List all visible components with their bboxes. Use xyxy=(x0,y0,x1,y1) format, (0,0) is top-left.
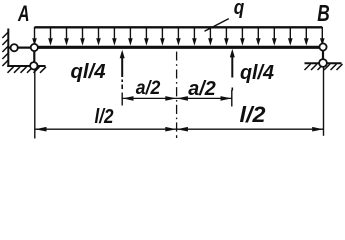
load arrow 17 xyxy=(288,27,293,46)
load arrow 7 xyxy=(128,27,133,46)
load arrow 14 xyxy=(240,27,245,46)
support B ground hatching xyxy=(305,64,343,70)
point load ql/4 left up arrow xyxy=(120,50,125,89)
extension line right l/2 (support B) xyxy=(323,67,325,136)
extension line left a/2 xyxy=(121,93,123,106)
load arrow 13 xyxy=(224,27,229,46)
beam xyxy=(35,46,324,49)
support A hinge circle at ground xyxy=(30,62,37,69)
label l/2 left xyxy=(95,106,114,128)
svg-text:ql/4: ql/4 xyxy=(240,62,274,84)
label A xyxy=(17,1,29,26)
support A wall line xyxy=(7,29,9,68)
dimension line a/2 xyxy=(122,96,232,101)
support A horizontal link xyxy=(8,46,34,48)
support B hinge circle at ground xyxy=(319,59,327,67)
load arrow 12 xyxy=(208,27,213,46)
load arrow 9 xyxy=(160,27,165,46)
load arrow 2 xyxy=(48,27,53,46)
svg-text:q: q xyxy=(234,0,245,19)
support A ground line xyxy=(7,65,45,67)
support A ground hatching xyxy=(8,67,47,73)
centre dash-dot line xyxy=(176,52,178,138)
label B xyxy=(317,0,330,26)
svg-text:B: B xyxy=(317,0,330,26)
support A hinge circle at wall xyxy=(11,44,18,51)
dimension line l/2 xyxy=(35,127,324,132)
label l/2 right xyxy=(240,102,267,127)
load arrow 4 xyxy=(80,27,85,46)
load arrow 3 xyxy=(64,27,69,46)
load arrow 1 xyxy=(32,27,37,46)
label a/2 left xyxy=(136,78,161,99)
load arrow 5 xyxy=(96,27,101,46)
svg-text:a/2: a/2 xyxy=(136,78,161,99)
load arrow 15 xyxy=(256,27,261,46)
load arrow 16 xyxy=(272,27,277,46)
label a/2 right xyxy=(188,78,216,100)
svg-text:l/2: l/2 xyxy=(95,106,114,128)
support B vertical link xyxy=(322,47,324,63)
svg-text:ql/4: ql/4 xyxy=(71,61,106,83)
label q xyxy=(234,0,245,19)
svg-text:A: A xyxy=(17,1,29,26)
svg-text:a/2: a/2 xyxy=(188,78,216,100)
load arrow 11 xyxy=(192,27,197,46)
load arrow 10 xyxy=(176,27,181,46)
support A vertical link xyxy=(33,48,35,67)
load arrow 19 xyxy=(320,27,325,46)
support B hinge circle at beam xyxy=(319,43,326,50)
label ql/4 right xyxy=(240,62,274,84)
distributed load top line xyxy=(35,26,323,28)
label ql/4 left xyxy=(71,61,106,83)
load arrow 18 xyxy=(304,27,309,46)
support A wall hatching xyxy=(2,32,8,66)
extension line left l/2 (support A) xyxy=(34,70,36,139)
load arrow 8 xyxy=(144,27,149,46)
svg-text:l/2: l/2 xyxy=(240,102,267,127)
load arrow 6 xyxy=(112,27,117,46)
point load ql/4 right up arrow xyxy=(230,49,235,91)
support A hinge circle at beam xyxy=(31,44,38,51)
extension line right a/2 xyxy=(231,90,233,107)
support B ground line xyxy=(305,62,342,64)
leader line for q xyxy=(205,19,229,32)
